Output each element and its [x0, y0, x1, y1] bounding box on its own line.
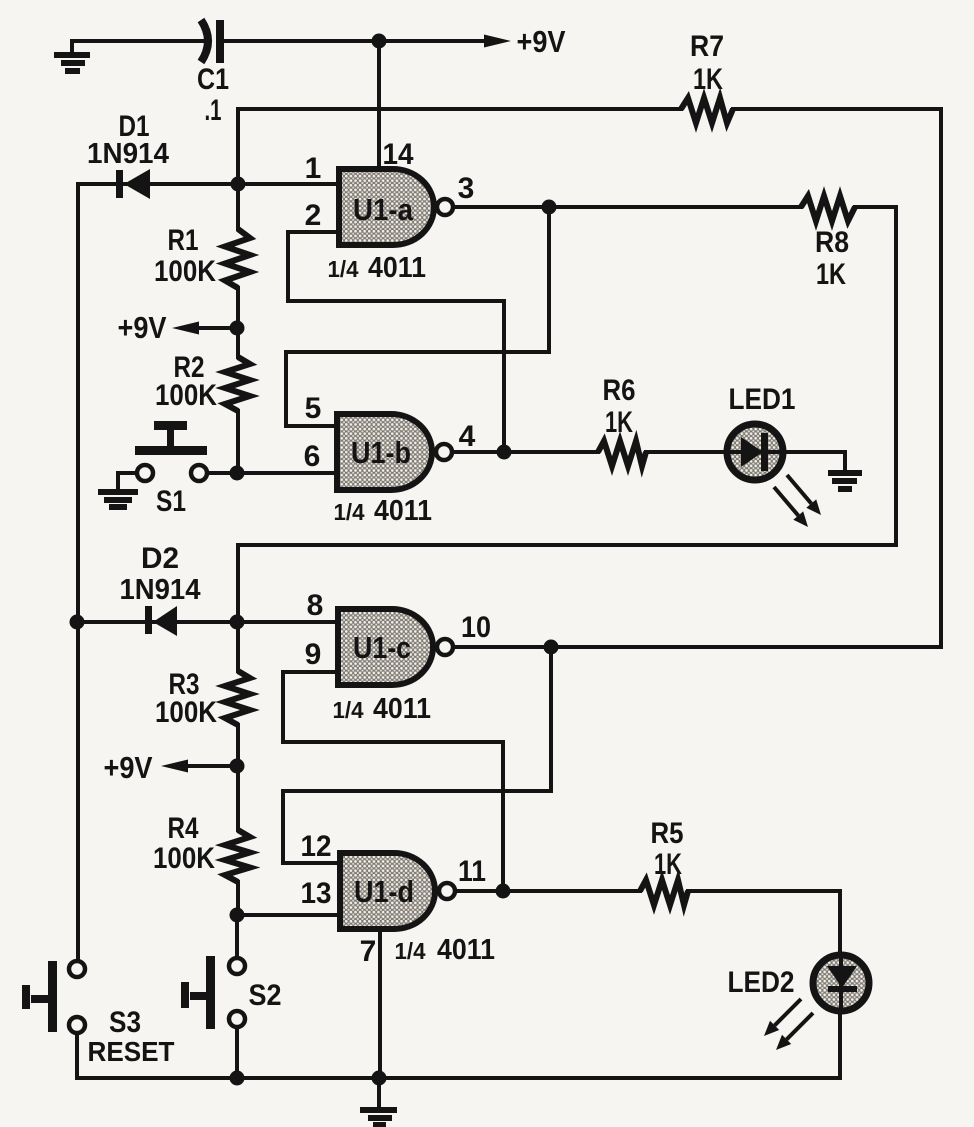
svg-text:+9V: +9V — [104, 750, 153, 785]
svg-text:R6: R6 — [603, 374, 636, 407]
svg-text:1K: 1K — [654, 848, 682, 881]
svg-text:1/4: 1/4 — [328, 256, 359, 282]
svg-text:+9V: +9V — [118, 310, 167, 345]
svg-text:U1-d: U1-d — [354, 874, 414, 909]
svg-text:12: 12 — [301, 830, 332, 863]
svg-text:1N914: 1N914 — [120, 574, 201, 606]
svg-text:RESET: RESET — [88, 1036, 175, 1067]
svg-text:3: 3 — [458, 172, 475, 205]
svg-text:1K: 1K — [816, 258, 846, 291]
svg-text:14: 14 — [383, 138, 414, 171]
svg-text:R7: R7 — [690, 30, 724, 63]
svg-text:4011: 4011 — [437, 934, 495, 966]
svg-text:U1-a: U1-a — [353, 192, 414, 227]
svg-text:4011: 4011 — [374, 495, 432, 527]
svg-text:R4: R4 — [168, 812, 199, 845]
svg-text:S2: S2 — [249, 979, 282, 1012]
svg-text:100K: 100K — [154, 255, 216, 288]
svg-text:D2: D2 — [141, 542, 179, 575]
svg-text:5: 5 — [305, 392, 322, 425]
svg-text:C1: C1 — [197, 63, 229, 96]
svg-text:LED1: LED1 — [729, 383, 796, 416]
svg-text:1N914: 1N914 — [87, 138, 169, 170]
svg-text:LED2: LED2 — [728, 966, 795, 999]
svg-text:8: 8 — [307, 589, 324, 622]
svg-text:11: 11 — [458, 855, 486, 888]
svg-text:R5: R5 — [651, 817, 684, 850]
svg-text:10: 10 — [461, 611, 491, 644]
svg-text:S3: S3 — [109, 1006, 141, 1039]
svg-text:1/4: 1/4 — [395, 938, 426, 964]
svg-text:100K: 100K — [155, 696, 217, 729]
svg-text:13: 13 — [301, 877, 332, 910]
svg-text:1/4: 1/4 — [333, 697, 364, 723]
svg-text:U1-c: U1-c — [353, 630, 411, 665]
svg-text:7: 7 — [360, 935, 377, 968]
svg-text:4: 4 — [459, 420, 476, 453]
svg-text:1K: 1K — [693, 63, 723, 96]
svg-text:1/4: 1/4 — [334, 499, 365, 525]
svg-text:2: 2 — [305, 199, 322, 232]
svg-text:.1: .1 — [205, 94, 222, 127]
svg-text:4011: 4011 — [368, 252, 426, 284]
svg-text:R1: R1 — [168, 224, 199, 257]
svg-text:4011: 4011 — [373, 693, 431, 725]
svg-text:S1: S1 — [156, 485, 186, 518]
svg-text:100K: 100K — [155, 379, 217, 412]
svg-text:1: 1 — [305, 152, 322, 185]
svg-text:6: 6 — [304, 440, 321, 473]
svg-text:+9V: +9V — [517, 24, 566, 59]
svg-text:1K: 1K — [605, 406, 633, 439]
svg-text:100K: 100K — [153, 842, 215, 875]
svg-text:U1-b: U1-b — [351, 435, 411, 470]
svg-text:9: 9 — [305, 638, 322, 671]
svg-text:R8: R8 — [815, 226, 849, 259]
